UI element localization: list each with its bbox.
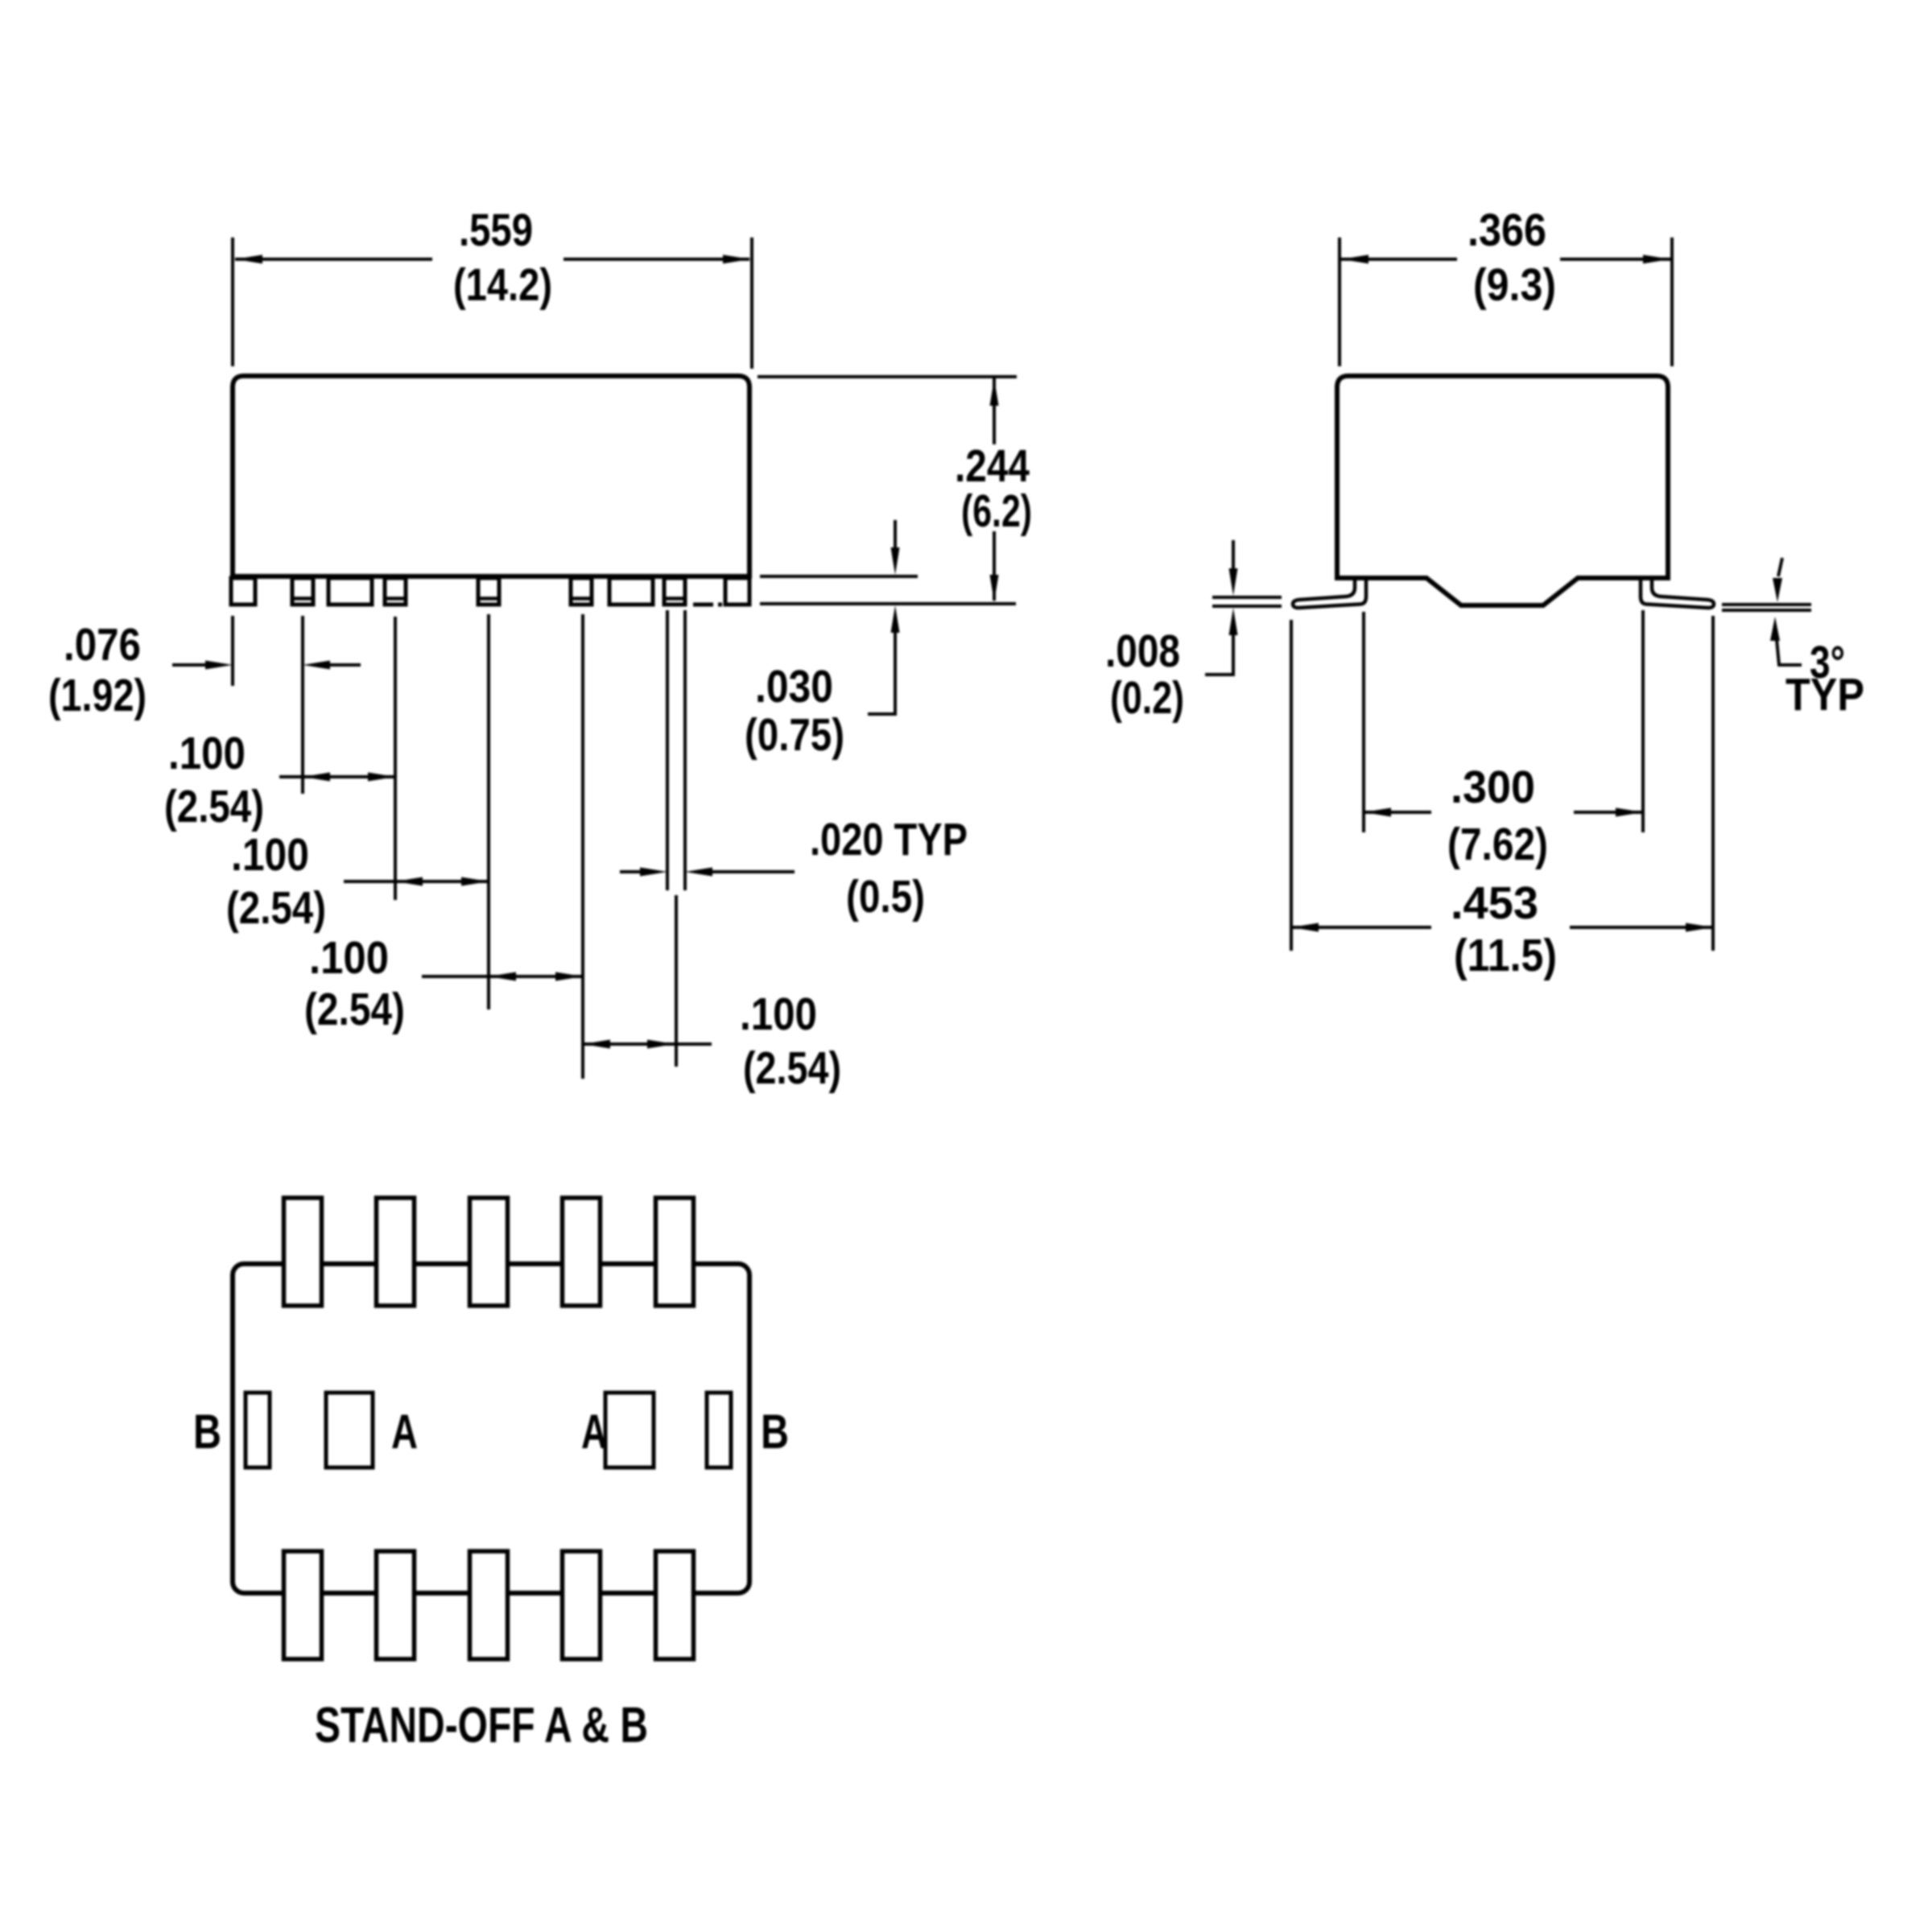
side view right gull-wing lead (1641, 576, 1714, 608)
bottom view top-row pad 3 (470, 1198, 508, 1306)
dim .030 lower arrowhead (891, 605, 900, 633)
side view left gull-wing lead (1293, 576, 1366, 608)
dim .100 #4 dimension line (583, 1042, 712, 1046)
dim .020 pin-edge extension lines (666, 610, 669, 890)
svg-text:B: B (193, 1405, 221, 1459)
dim .030 seating-plane extension line (760, 602, 1016, 605)
bottom view top-row pad 4 (563, 1198, 601, 1306)
dim 3deg upper leader and arrowhead (1778, 558, 1782, 576)
dim .100 #2 dimension line (344, 880, 489, 883)
dim 3deg foot-plane wedge lines (1722, 603, 1811, 606)
dim .559 left arrowhead (235, 255, 262, 264)
dim .366 left extension line (1338, 237, 1341, 366)
svg-text:(9.3): (9.3) (1473, 259, 1556, 311)
dim .030 upper leader line (894, 520, 897, 551)
dim .244 bottom arrowhead (990, 575, 999, 602)
svg-text:.366: .366 (1468, 204, 1546, 256)
front view near pin P1 foot line (edge-on) (292, 597, 313, 601)
dim .100 #1 arrowheads (303, 773, 330, 782)
svg-text:.100: .100 (309, 932, 389, 984)
svg-text:(6.2): (6.2) (961, 485, 1032, 537)
front view far pin P10 (right corner stub) (725, 578, 749, 605)
extension line pin1 center (301, 616, 304, 794)
front view near pin P4 foot line (edge-on) (571, 597, 592, 601)
svg-text:.300: .300 (1451, 762, 1535, 813)
bottom view stand-off A right (605, 1393, 654, 1468)
svg-text:.100: .100 (168, 728, 246, 779)
front view near pin P2 lead (385, 578, 406, 605)
bottom view bottom-row pad 5 (656, 1551, 694, 1659)
dim .020 left arrow with tail (620, 870, 642, 873)
dim 3deg lower arrowhead and leader (1770, 617, 1780, 641)
dim .453 dimension line (1291, 926, 1431, 929)
svg-text:.076: .076 (64, 619, 141, 671)
dim .244 top arrowhead (990, 378, 999, 406)
svg-text:A: A (581, 1405, 607, 1459)
dim .100 #3 arrowheads (489, 972, 516, 981)
svg-text:(7.62): (7.62) (1447, 819, 1548, 870)
dim .453 right extension line (1711, 616, 1715, 951)
front view: relay case outline (233, 376, 749, 576)
svg-text:.559: .559 (459, 204, 533, 256)
dim .100 #3 dimension line (422, 975, 583, 978)
bottom view stand-off B right (707, 1393, 731, 1468)
dim .030 case-bottom extension line (760, 575, 918, 578)
front view near pin P5 lead (664, 578, 685, 605)
dim .300 dimension line (1364, 811, 1431, 814)
bottom view bottom-row pad 4 (563, 1551, 601, 1659)
bottom view bottom-row pad 2 (377, 1551, 415, 1659)
dim .244 top extension line (758, 375, 1017, 378)
dim .559 right arrowhead (723, 255, 750, 264)
svg-text:(0.75): (0.75) (745, 709, 844, 761)
dim .100 #4 arrowheads (583, 1040, 610, 1049)
dim .100 #2 arrowheads (395, 877, 423, 886)
svg-text:B: B (761, 1405, 789, 1459)
svg-text:.100: .100 (231, 829, 309, 881)
dim .020 right arrow with tail (685, 868, 712, 877)
bottom view bottom-row pad 1 (284, 1551, 322, 1659)
front view hidden pin foot (dashed) (693, 603, 722, 607)
dim .453 left extension line (1290, 620, 1293, 951)
svg-text:.244: .244 (955, 440, 1030, 492)
svg-text:.008: .008 (1105, 625, 1180, 677)
svg-text:(2.54): (2.54) (304, 984, 405, 1035)
extension line pin2 center (394, 617, 397, 900)
front view near pin P3 foot line (edge-on) (478, 597, 499, 601)
front view near pin P5 foot line (edge-on) (664, 597, 685, 601)
svg-text:.100: .100 (740, 989, 817, 1040)
dim .366 dimension line (1341, 258, 1457, 261)
front view near pin P1 lead (292, 578, 313, 605)
dim .559 dimension line (235, 258, 432, 261)
bottom view: relay body outline (233, 1264, 749, 1593)
svg-text:.030: .030 (755, 661, 833, 712)
dim .559 left extension line (231, 237, 234, 366)
svg-text:TYP: TYP (1785, 669, 1864, 720)
extension line pin4 center (581, 614, 584, 1079)
svg-text:(2.54): (2.54) (226, 882, 326, 934)
svg-text:(2.54): (2.54) (743, 1042, 841, 1094)
dim .100 #1 dimension line (279, 775, 395, 778)
svg-text:(0.5): (0.5) (846, 871, 925, 923)
front view near pin P2 foot line (edge-on) (385, 597, 406, 601)
svg-text:(1.92): (1.92) (48, 670, 147, 721)
svg-text:(0.2): (0.2) (1110, 672, 1184, 724)
dim .076 right opposing arrow with tail (303, 661, 330, 670)
bottom view bottom-row pad 3 (470, 1551, 508, 1659)
dim .030 upper arrowhead (891, 547, 900, 575)
svg-text:(11.5): (11.5) (1454, 930, 1557, 981)
dim .300 left extension line (1362, 612, 1365, 832)
dim .076 left arrow with tail (172, 663, 208, 667)
dim .453 arrowheads (1291, 923, 1319, 932)
front view far pin P9 (wide stub right) (609, 578, 653, 605)
svg-text:(14.2): (14.2) (453, 259, 552, 311)
bottom view top-row pad 5 (656, 1198, 694, 1306)
svg-text:(2.54): (2.54) (164, 781, 264, 832)
dim .244 dimension line (993, 378, 996, 444)
svg-text:.020 TYP: .020 TYP (810, 814, 968, 865)
bottom view stand-off B left (246, 1393, 270, 1468)
dim .076 extension line (case edge) (231, 616, 234, 686)
svg-text:.453: .453 (1451, 877, 1538, 929)
front view far pin P7 (wide stub left) (328, 578, 372, 605)
dim .366 arrowheads (1341, 255, 1368, 264)
bottom view top-row pad 1 (284, 1198, 322, 1306)
dim .300 arrowheads (1364, 808, 1391, 817)
bottom view stand-off A left (326, 1393, 373, 1468)
front view near pin P4 lead (571, 578, 592, 605)
dim .300 right extension line (1641, 610, 1645, 832)
dim .008 lower arrowhead and leader (1229, 608, 1238, 635)
dim .559 right extension line (750, 237, 753, 369)
dim .008 upper leader and arrowhead (1232, 540, 1235, 570)
svg-text:STAND-OFF A & B: STAND-OFF A & B (315, 1698, 648, 1753)
side view: relay case outline with bottom notch (1337, 376, 1668, 605)
extension line pin3 center (487, 614, 490, 1009)
dim .366 right extension line (1670, 237, 1674, 366)
front view near pin P3 lead (478, 578, 499, 605)
dim .030 lower leader line (894, 633, 897, 714)
extension line pin5 center (675, 895, 678, 1067)
front view far pin P6 (left corner stub) (231, 578, 255, 605)
bottom view top-row pad 2 (377, 1198, 415, 1306)
dim .008 reference plane lines (1212, 596, 1282, 599)
svg-text:A: A (391, 1405, 418, 1459)
